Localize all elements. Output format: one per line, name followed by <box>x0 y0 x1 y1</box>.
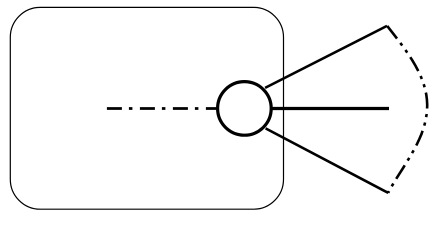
upper beam edge ray <box>265 26 387 88</box>
lens / aperture circle <box>218 82 272 136</box>
beam spread arc (dash-dot) <box>387 26 427 193</box>
lower beam edge ray <box>266 128 389 193</box>
enclosure body (rounded rectangle) <box>10 7 283 209</box>
central beam ray <box>272 107 389 110</box>
optical axis centerline (dash-dot) <box>107 107 216 110</box>
